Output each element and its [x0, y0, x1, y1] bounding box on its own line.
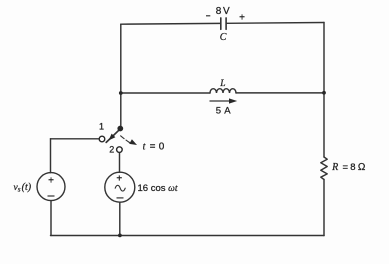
svg-text:vs(t): vs(t)	[14, 182, 32, 194]
svg-text:+: +	[239, 13, 245, 24]
svg-text:L: L	[219, 79, 225, 89]
svg-text:C: C	[220, 32, 227, 43]
svg-text:5A: 5A	[216, 106, 231, 117]
svg-text:8V: 8V	[216, 6, 230, 17]
svg-text:t=0: t=0	[143, 142, 165, 153]
svg-text:2: 2	[109, 145, 114, 155]
svg-text:16 cos ωt: 16 cos ωt	[138, 183, 178, 194]
svg-text:+: +	[48, 176, 54, 187]
svg-text:R=8Ω: R=8Ω	[331, 162, 366, 173]
svg-text:+: +	[116, 173, 122, 184]
svg-text:1: 1	[99, 122, 104, 132]
